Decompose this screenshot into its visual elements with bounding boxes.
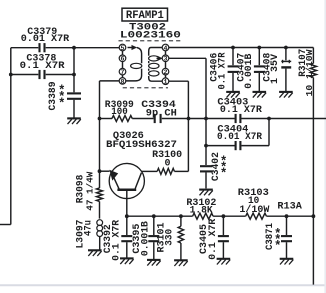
capacitor C3871 <box>265 216 292 258</box>
node junction pin3 rail top <box>204 117 208 121</box>
transformer shield dashed top <box>119 40 181 42</box>
pin 5 T3002 <box>119 44 126 52</box>
node junction C3871 <box>285 214 289 218</box>
node junction C3404 tap <box>204 144 208 148</box>
ground C3405 <box>217 259 231 265</box>
svg-text:47u: 47u <box>83 220 94 236</box>
node junction C3407 <box>257 46 261 50</box>
wire pin8 to rail <box>100 81 120 171</box>
wire base bus <box>127 215 314 217</box>
svg-text:0.1 X7R: 0.1 X7R <box>20 61 65 72</box>
ground C3406 <box>226 92 240 98</box>
node junction C3405 <box>222 214 226 218</box>
node junction base <box>125 214 129 218</box>
wire main row right <box>189 118 326 120</box>
pin 4 T3002 <box>162 44 169 52</box>
node junction C3406 <box>231 46 235 50</box>
resistor R3107 <box>298 49 317 97</box>
svg-text:*: * <box>220 167 228 181</box>
ground C3402 <box>199 190 213 196</box>
resistor R3102 <box>186 198 216 219</box>
capacitor C3402 <box>200 152 227 188</box>
capacitor C3395 <box>132 216 159 259</box>
transformer T3002 label <box>120 23 181 42</box>
T3002 secondary winding <box>149 48 163 82</box>
node junction R3101 <box>179 214 183 218</box>
svg-text:1: 1 <box>164 79 168 86</box>
svg-text:8: 8 <box>121 78 125 85</box>
svg-text:0.1 X7R: 0.1 X7R <box>208 219 219 260</box>
capacitor C3379 <box>21 27 70 52</box>
capacitor C3378 <box>20 53 65 79</box>
inductor L3097 <box>76 220 103 250</box>
ground L3097 <box>88 250 102 256</box>
node junction C3404 right <box>267 117 271 121</box>
svg-text:RFAMP1: RFAMP1 <box>126 10 164 22</box>
svg-text:1.8K: 1.8K <box>190 205 213 216</box>
svg-text:1/10W: 1/10W <box>239 204 269 216</box>
node junction emitter tap <box>98 169 102 173</box>
wire C3378 row <box>11 74 74 76</box>
capacitor C3389 <box>48 82 81 111</box>
pin 6 T3002 <box>119 55 126 63</box>
wire supply rail right <box>312 48 314 285</box>
node junction bypass top <box>72 46 76 50</box>
node junction supply rail bias <box>312 214 316 218</box>
wire R3099 row <box>100 118 189 120</box>
wire supply row <box>169 47 314 49</box>
svg-text:0.001B: 0.001B <box>140 221 151 256</box>
wire bypass rail <box>73 48 75 118</box>
svg-text:*: * <box>274 239 282 253</box>
capacitor C3404 <box>217 125 262 151</box>
ground R3101 <box>174 260 188 266</box>
node junction C3378 left <box>9 73 13 77</box>
capacitor C3405 <box>199 216 229 260</box>
pin 2 T3002 <box>162 68 169 76</box>
ground C3389 <box>67 118 81 124</box>
pin 3 T3002 <box>162 55 169 63</box>
ground C3395 <box>147 260 161 266</box>
svg-text:1 35V: 1 35V <box>270 54 281 84</box>
node junction feedback <box>187 117 191 121</box>
capacitor C3406 <box>210 48 239 92</box>
node junction bypass mid <box>72 73 76 77</box>
resistor R3098 <box>75 171 102 210</box>
svg-text:0.01 X7R: 0.01 X7R <box>217 132 262 143</box>
right page border line <box>324 0 326 293</box>
svg-text:R13A: R13A <box>277 202 302 213</box>
T3002 primary winding <box>126 45 142 81</box>
wire pin3 rail <box>169 58 206 165</box>
svg-text:100: 100 <box>111 107 128 118</box>
capacitor C3392 <box>103 216 133 261</box>
pin 7 T3002 <box>119 68 126 76</box>
svg-text:10 1/10W: 10 1/10W <box>304 49 315 96</box>
wire C3404 row <box>206 119 269 146</box>
svg-text:47 1/4W: 47 1/4W <box>84 171 95 210</box>
svg-text:9p CH: 9p CH <box>146 108 177 119</box>
svg-text:0.1 X7R: 0.1 X7R <box>217 53 228 90</box>
svg-text:0.1 X7R: 0.1 X7R <box>220 105 262 116</box>
resistor R3099 <box>105 100 134 122</box>
ground C3871 <box>280 259 294 265</box>
ground C3408 <box>279 92 293 98</box>
svg-text:L0023160: L0023160 <box>120 31 181 42</box>
T3002 pin column links <box>123 51 166 78</box>
capacitor C3394 <box>141 100 177 123</box>
wire input rail left <box>0 48 11 225</box>
ground C3392 <box>120 258 134 264</box>
net label R13A <box>277 202 302 213</box>
wire emitter rail <box>99 171 101 218</box>
node junction C3408 <box>284 46 288 50</box>
block label RFAMP1 box <box>122 8 168 22</box>
svg-text:0.01 X7R: 0.01 X7R <box>21 34 70 45</box>
capacitor C3408 <box>262 48 291 92</box>
ground C3407 <box>253 92 267 98</box>
resistor R3100 <box>152 150 182 174</box>
node junction C3395 <box>152 214 156 218</box>
wire emitter <box>100 170 110 172</box>
node junction R3099 tap <box>98 117 102 121</box>
wire C3379 row <box>11 47 120 49</box>
transistor Q3026 label <box>106 131 177 151</box>
bottom page border line <box>0 284 326 286</box>
wire pin1 to feedback rail <box>169 81 189 171</box>
resistor R3103 <box>238 188 270 219</box>
svg-text:0: 0 <box>164 158 170 169</box>
svg-text:0.1 X7R: 0.1 X7R <box>111 220 122 261</box>
capacitor C3407 <box>237 48 265 92</box>
transformer shield dashed bottom <box>123 87 168 89</box>
transistor Q3026 <box>109 163 144 198</box>
pin 1 T3002 <box>162 78 169 86</box>
svg-text:*: * <box>58 97 66 111</box>
svg-text:0.001B: 0.001B <box>244 54 255 89</box>
svg-text:330: 330 <box>165 229 176 246</box>
pin 8 T3002 <box>119 78 126 86</box>
resistor R3101 <box>157 216 184 259</box>
capacitor C3403 <box>217 97 262 123</box>
wire collector to R3100 <box>142 170 189 172</box>
wire base down <box>126 191 128 216</box>
